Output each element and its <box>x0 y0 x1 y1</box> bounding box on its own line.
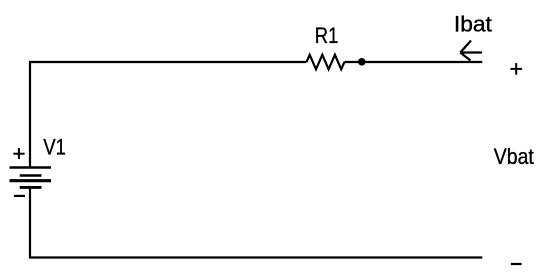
svg-text:R1: R1 <box>315 23 339 48</box>
svg-text:Ibat: Ibat <box>454 11 492 36</box>
battery plus sign <box>13 148 24 159</box>
wire resistor to right end <box>344 61 482 63</box>
current arrow Ibat <box>460 41 482 61</box>
plus sign right terminal <box>510 63 522 75</box>
battery minus sign <box>14 195 25 197</box>
node junction dot <box>358 58 366 66</box>
wire bottom horizontal <box>29 256 482 258</box>
wire top-left horizontal segment <box>30 61 307 63</box>
minus sign bottom right terminal <box>511 263 522 265</box>
resistor R1 <box>307 55 345 70</box>
wire left vertical lower <box>29 187 31 257</box>
svg-text:Vbat: Vbat <box>494 144 534 169</box>
svg-text:V1: V1 <box>43 134 66 159</box>
battery V1 <box>10 168 52 188</box>
wire left vertical upper <box>29 61 31 167</box>
